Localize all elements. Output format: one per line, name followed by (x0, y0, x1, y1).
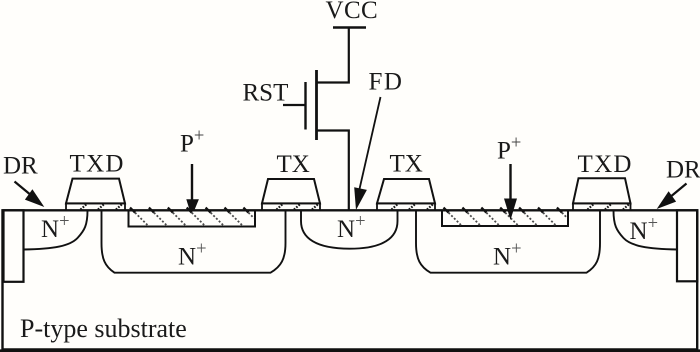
transistor RST channel bar (315, 70, 318, 140)
wire transistor source to FD node (317, 131, 349, 211)
P+ right implant arrow shaft (509, 164, 511, 200)
N+ drain region right boundary curve (614, 211, 678, 250)
svg-text:DR: DR (3, 152, 38, 179)
wire RST gate lead (283, 104, 306, 106)
DR right pointer line (669, 184, 687, 199)
DR left pointer arrowhead (25, 189, 44, 207)
N+ floating diffusion region (301, 211, 398, 249)
gate TXD left (66, 179, 125, 211)
svg-text:FD: FD (369, 68, 404, 95)
gate TX left (262, 179, 320, 210)
P+ left implant arrowhead (186, 199, 199, 210)
transistor RST gate bar (304, 82, 306, 130)
svg-text:TXD: TXD (70, 150, 125, 177)
FD pointer arrowhead (354, 187, 367, 210)
svg-text:RST: RST (243, 80, 289, 107)
svg-text:DR: DR (666, 156, 700, 183)
P+ left implant arrow shaft (191, 164, 193, 201)
DR right pointer arrowhead (657, 191, 676, 209)
gate TXD right (573, 178, 631, 210)
P+ pinning layer left (129, 208, 256, 227)
DR contact rectangle left (4, 210, 24, 281)
P+ pinning layer right (442, 208, 568, 226)
N+ photodiode well right (416, 211, 600, 273)
svg-text:VCC: VCC (326, 0, 379, 24)
DR left pointer line (15, 182, 33, 197)
substrate bottom border thick (0, 349, 700, 352)
svg-text:P-type substrate: P-type substrate (20, 314, 187, 343)
svg-text:TXD: TXD (578, 151, 633, 178)
FD pointer line (360, 97, 381, 189)
svg-text:TX: TX (390, 150, 423, 177)
DR contact rectangle right (677, 210, 697, 281)
svg-text:TX: TX (277, 151, 310, 178)
N+ photodiode well left (102, 211, 286, 273)
N+ drain region left boundary curve (24, 211, 88, 250)
substrate outline (3, 210, 698, 349)
VCC power rail bar (333, 26, 366, 28)
P+ right implant arrowhead (504, 199, 517, 221)
wire VCC to transistor drain (317, 28, 349, 83)
gate TX right (377, 179, 435, 210)
